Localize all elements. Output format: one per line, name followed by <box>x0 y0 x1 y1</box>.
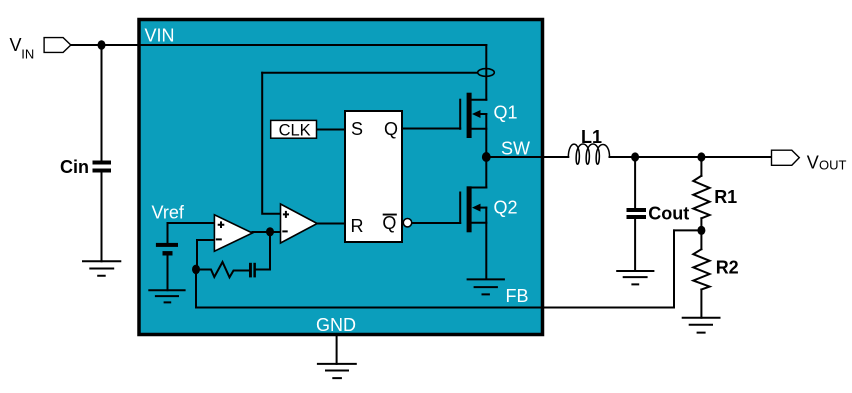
svg-text:Q: Q <box>384 119 398 139</box>
svg-text:FB: FB <box>506 286 529 306</box>
svg-text:V: V <box>10 35 22 55</box>
svg-text:Q1: Q1 <box>494 102 518 122</box>
svg-text:Q: Q <box>382 213 396 233</box>
svg-text:SW: SW <box>501 139 530 159</box>
svg-text:OUT: OUT <box>819 158 847 173</box>
svg-text:R: R <box>351 216 364 236</box>
svg-text:Vref: Vref <box>152 203 185 223</box>
svg-text:R2: R2 <box>716 258 739 278</box>
svg-text:Cin: Cin <box>60 157 89 177</box>
svg-text:GND: GND <box>316 315 356 335</box>
svg-text:Q2: Q2 <box>494 198 518 218</box>
svg-text:S: S <box>351 119 363 139</box>
svg-text:IN: IN <box>21 47 34 62</box>
svg-text:CLK: CLK <box>279 122 311 140</box>
svg-text:L1: L1 <box>581 127 602 147</box>
svg-text:R1: R1 <box>714 187 737 207</box>
svg-text:V: V <box>807 153 819 173</box>
svg-text:Cout: Cout <box>648 204 689 224</box>
svg-text:VIN: VIN <box>145 26 175 46</box>
